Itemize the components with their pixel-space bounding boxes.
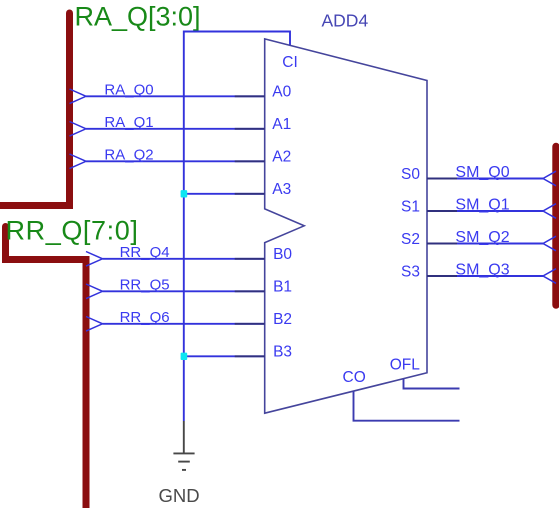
pin stub S1	[427, 210, 457, 212]
svg-text:OFL: OFL	[390, 357, 421, 374]
pin stub A2	[235, 160, 265, 162]
svg-text:B3: B3	[273, 343, 292, 360]
pin stub B0	[235, 258, 265, 260]
bus RR_Q[7:0]	[2, 223, 86, 512]
svg-text:RR_Q4: RR_Q4	[120, 244, 170, 261]
svg-text:S1: S1	[401, 199, 420, 216]
wire B3 (from vertical net to pin B3)	[184, 355, 265, 357]
bus SM (right edge)	[552, 147, 559, 306]
wire SM_Q0	[455, 164, 556, 186]
wire RA_Q0	[70, 82, 265, 104]
svg-text:SM_Q0: SM_Q0	[455, 164, 509, 181]
svg-text:ADD4: ADD4	[322, 11, 369, 31]
svg-text:A0: A0	[272, 83, 291, 100]
pin stub S3	[427, 275, 457, 277]
svg-text:B1: B1	[273, 278, 292, 295]
svg-text:A2: A2	[272, 148, 291, 165]
svg-text:RA_Q[3:0]: RA_Q[3:0]	[75, 1, 201, 31]
pin stub S2	[427, 243, 457, 245]
svg-text:RR_Q5: RR_Q5	[120, 277, 170, 294]
svg-text:CI: CI	[282, 54, 298, 71]
wire RA_Q1	[70, 114, 265, 136]
wire SM_Q1	[455, 196, 556, 218]
ground symbol	[173, 421, 194, 470]
svg-text:A3: A3	[272, 181, 291, 198]
svg-text:SM_Q2: SM_Q2	[455, 229, 509, 246]
junction B3	[181, 353, 188, 360]
svg-text:SM_Q1: SM_Q1	[455, 196, 509, 213]
pin stub B3	[235, 355, 265, 357]
wire RR_Q6	[86, 309, 265, 331]
svg-text:S0: S0	[401, 166, 420, 183]
wire SM_Q3	[455, 261, 556, 283]
svg-text:S2: S2	[401, 231, 420, 248]
wire CI net (vertical net and top run to CI pin)	[184, 32, 290, 422]
svg-text:RA_Q2: RA_Q2	[104, 147, 153, 164]
wire RR_Q4	[86, 244, 265, 266]
svg-text:RA_Q0: RA_Q0	[104, 82, 153, 99]
pin stub S0	[427, 178, 457, 180]
svg-text:B0: B0	[273, 246, 292, 263]
junction A3	[181, 190, 188, 197]
svg-text:B2: B2	[273, 311, 292, 328]
wire RA_Q2	[70, 147, 265, 169]
adder U1 ADD4 symbol outline	[265, 39, 427, 413]
svg-text:SM_Q3: SM_Q3	[455, 261, 509, 278]
wire SM_Q2	[455, 229, 556, 251]
svg-text:CO: CO	[343, 369, 366, 386]
svg-text:RA_Q1: RA_Q1	[104, 114, 153, 131]
pin stub A0	[235, 95, 265, 97]
pin stub A3	[235, 193, 265, 195]
pin stub B2	[235, 323, 265, 325]
pin stub B1	[235, 290, 265, 292]
svg-text:S3: S3	[401, 264, 420, 281]
wire CO (dangling)	[354, 391, 460, 421]
wire OFL (dangling)	[404, 379, 460, 389]
pin stub A1	[235, 128, 265, 130]
bus RA_Q[3:0]	[0, 10, 73, 206]
svg-text:A1: A1	[272, 116, 291, 133]
wire A3 (from vertical net to pin A3)	[184, 193, 265, 195]
wire RR_Q5	[86, 277, 265, 299]
svg-text:GND: GND	[158, 485, 199, 506]
svg-text:RR_Q[7:0]: RR_Q[7:0]	[6, 216, 139, 246]
svg-text:RR_Q6: RR_Q6	[120, 309, 170, 326]
